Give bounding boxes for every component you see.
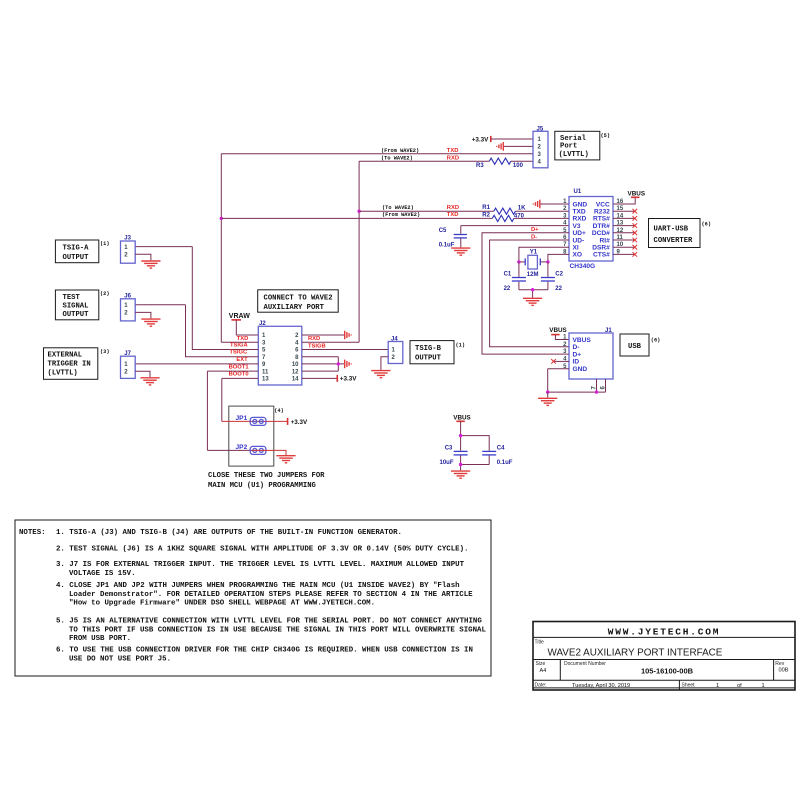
svg-text:1K: 1K (518, 206, 526, 212)
svg-text:AUXILIARY PORT: AUXILIARY PORT (264, 304, 325, 312)
svg-text:TSIGA: TSIGA (230, 342, 249, 348)
wire crystal right stub (540, 261, 548, 263)
svg-text:Document Number: Document Number (564, 661, 606, 667)
svg-text:TXD: TXD (237, 336, 249, 342)
capacitor C2 plates (541, 277, 555, 279)
svg-text:RXD: RXD (308, 336, 320, 342)
svg-text:R1: R1 (482, 205, 490, 211)
svg-text:D-: D- (573, 344, 580, 351)
svg-text:U1: U1 (574, 189, 582, 195)
svg-text:470: 470 (514, 214, 525, 220)
junction crystal ground node (531, 288, 534, 291)
wire J2 pin 2 to ground (302, 334, 344, 336)
svg-text:+3.3V: +3.3V (340, 376, 357, 383)
power VBUS at U1 pin 16 (631, 196, 639, 198)
svg-text:SIGNAL: SIGNAL (63, 303, 89, 311)
svg-text:CH340G: CH340G (570, 263, 596, 270)
svg-text:USB: USB (628, 343, 642, 351)
svg-text:EXTERNAL: EXTERNAL (48, 352, 83, 360)
svg-text:CLOSE THESE TWO JUMPERS FOR: CLOSE THESE TWO JUMPERS FOR (208, 472, 325, 480)
capacitor C1 plates (512, 277, 526, 279)
connector J7 (121, 356, 136, 378)
svg-text:(1): (1) (100, 241, 110, 247)
svg-text:(To WAVE2): (To WAVE2) (381, 155, 413, 161)
svg-text:C4: C4 (497, 445, 505, 451)
svg-text:+3.3V: +3.3V (472, 136, 489, 143)
svg-text:Rev: Rev (775, 661, 784, 667)
svg-text:3. J7 IS FOR EXTERNAL TRIGGER: 3. J7 IS FOR EXTERNAL TRIGGER INPUT. THE… (56, 561, 465, 569)
svg-text:"How to Upgrade Firmware" UNDE: "How to Upgrade Firmware" UNDER DSO SHEL… (69, 599, 375, 607)
ground at C5 (451, 248, 470, 255)
wire BOOT1 to JP2 (207, 449, 252, 451)
svg-text:TEST: TEST (63, 294, 81, 302)
svg-text:(LVTTL): (LVTTL) (48, 370, 78, 378)
svg-text:0.1uF: 0.1uF (497, 460, 513, 466)
connector J6 (121, 299, 136, 321)
svg-text:UD+: UD+ (573, 230, 587, 237)
svg-text:TRIGGER IN: TRIGGER IN (48, 361, 91, 369)
jumper JP2 body (250, 446, 266, 454)
connector J1 USB body (569, 333, 613, 379)
notes box (15, 520, 491, 676)
svg-text:TXD: TXD (447, 212, 459, 218)
svg-text:D+: D+ (531, 227, 539, 233)
wire VRAW to J2 pin 1 (236, 320, 258, 335)
svg-text:RXD: RXD (447, 155, 459, 161)
svg-text:(4): (4) (274, 408, 284, 414)
wire VBUS to C3 C4 top node (461, 421, 490, 450)
capacitor C1 branch wire (518, 262, 520, 290)
title block frame (533, 622, 795, 691)
svg-text:2. TEST SIGNAL (J6) IS A 1KHZ: 2. TEST SIGNAL (J6) IS A 1KHZ SQUARE SIG… (56, 546, 468, 554)
annotation box EXTERNAL TRIGGER IN (LVTTL) (44, 348, 98, 380)
svg-text:C5: C5 (439, 228, 447, 234)
wire J3 pin 2 to ground (135, 254, 151, 260)
wire J4 pin 2 to ground (381, 357, 388, 370)
svg-text:(From WAVE2): (From WAVE2) (381, 148, 419, 154)
ground at J5 pin 2 (rotated) (497, 142, 504, 151)
wire EXT from J7 pin 1 to J2 pin 9 (135, 363, 258, 365)
capacitor C4 plates (482, 450, 496, 452)
capacitor C2 branch wire (547, 262, 549, 290)
svg-text:(To WAVE2): (To WAVE2) (382, 205, 414, 211)
wire crystal left stub (519, 261, 525, 263)
wire U1 pin 16 VCC to VBUS (613, 198, 635, 204)
svg-text:(From WAVE2): (From WAVE2) (382, 212, 420, 218)
title block dividers (533, 637, 795, 690)
svg-text:VBUS: VBUS (628, 190, 646, 197)
wire UD+ to J1 D+ pin (482, 233, 569, 354)
wire TXD net from WAVE2 (top row to J5 pin 3 and down to J2) (221, 154, 533, 342)
wire +3.3V to J5 pin 1 (491, 138, 533, 140)
svg-text:R3: R3 (476, 163, 484, 169)
svg-text:RI#: RI# (600, 237, 611, 244)
wire BOOT0 to JP1 (222, 420, 288, 422)
annotation box USB (620, 334, 649, 356)
ground at J2 pin 2 (rotated) (345, 331, 352, 340)
power +3.3V at JP1 (287, 418, 289, 425)
annotation box Serial Port (LVTTL) (555, 131, 600, 160)
svg-text:OUTPUT: OUTPUT (63, 254, 90, 262)
svg-text:RTS#: RTS# (593, 216, 610, 223)
wire U1 pin 4 V3 to C5 (461, 226, 569, 234)
svg-text:NOTES:: NOTES: (19, 529, 46, 537)
svg-text:D-: D- (531, 234, 537, 240)
connector J4 (388, 342, 403, 364)
wire UD- to J1 D- pin (490, 240, 569, 347)
wire TSIGA from J3 to J2 pin 5 (135, 247, 258, 350)
svg-text:1. TSIG-A (J3) AND TSIG-B (J4): 1. TSIG-A (J3) AND TSIG-B (J4) ARE OUTPU… (56, 529, 402, 537)
svg-text:J6: J6 (124, 294, 131, 300)
svg-text:CTS#: CTS# (593, 252, 610, 259)
svg-text:A4: A4 (540, 668, 547, 674)
svg-text:4. CLOSE JP1 AND JP2 WITH JUMP: 4. CLOSE JP1 AND JP2 WITH JUMPERS WHEN P… (56, 582, 460, 590)
junction RXD column (357, 210, 360, 213)
svg-text:Y1: Y1 (530, 250, 538, 256)
svg-text:C3: C3 (445, 445, 453, 451)
annotation box UART-USB CONVERTER (649, 219, 701, 248)
svg-text:12M: 12M (527, 272, 539, 278)
svg-text:OUTPUT: OUTPUT (415, 355, 442, 363)
junction J1 ground rail pin7 (595, 390, 598, 393)
svg-text:J2: J2 (259, 321, 266, 327)
svg-text:6. TO USE THE USB CONNECTION D: 6. TO USE THE USB CONNECTION DRIVER FOR … (56, 647, 473, 655)
svg-text:VOLTAGE IS 15V.: VOLTAGE IS 15V. (69, 570, 136, 578)
wire J2 pins 8,10,12 common (302, 357, 344, 371)
svg-text:+3.3V: +3.3V (291, 419, 308, 426)
junction TXD column (220, 217, 223, 220)
wire RXD from J2 pin 4 up (302, 341, 359, 343)
ground at J6 (141, 319, 160, 326)
svg-text:J5: J5 (537, 126, 544, 132)
connector J3 (121, 241, 136, 263)
ground at U1 pin 1 (rotated) (533, 200, 540, 209)
svg-text:FROM USB PORT.: FROM USB PORT. (69, 635, 131, 643)
ground at J7 (140, 378, 159, 385)
wire BOOT0 from J2 pin 13 down to JP1 (222, 378, 258, 421)
svg-text:VBUS: VBUS (453, 415, 471, 422)
IC U1 CH340G body (569, 197, 613, 262)
svg-text:Sheet: Sheet (682, 683, 696, 689)
svg-text:TXD: TXD (573, 209, 586, 216)
svg-text:UD-: UD- (573, 237, 585, 244)
svg-text:11: 11 (262, 369, 269, 375)
wire ground stem at J1 (547, 392, 549, 398)
svg-text:Title: Title (535, 640, 544, 646)
svg-text:(6): (6) (651, 338, 661, 344)
wire TXD row to U1 pin 3 through R2 (221, 217, 569, 219)
ground below crystal caps (523, 298, 542, 305)
junction crystal left node (517, 260, 520, 263)
svg-text:(1): (1) (456, 343, 466, 349)
svg-text:(6): (6) (702, 221, 712, 227)
ground at J3 (141, 261, 160, 268)
svg-text:EXT: EXT (236, 357, 248, 363)
svg-text:Date:: Date: (535, 683, 547, 689)
ground at J2 pin 10 (rotated) (345, 360, 352, 369)
svg-text:Size: Size (536, 661, 546, 667)
wire JP2 to ground (252, 450, 286, 455)
svg-text:12: 12 (292, 369, 299, 375)
junction at J2 pin 10 row (337, 362, 340, 365)
svg-text:of: of (737, 683, 742, 689)
annotation box TSIG-A OUTPUT (55, 240, 98, 263)
wire C3 C4 bottom node to ground (461, 456, 490, 471)
svg-text:Tuesday, April 30, 2019: Tuesday, April 30, 2019 (572, 683, 630, 689)
wire J1 shield pins 6,7 to ground rail (548, 379, 606, 392)
svg-text:ID: ID (573, 359, 580, 366)
wire RXD net to WAVE2 (top row to R3/J5 pin 4 and down to J2) (359, 161, 533, 342)
svg-text:V3: V3 (573, 223, 581, 230)
svg-text:VCC: VCC (596, 201, 610, 208)
wire C5 to ground (460, 239, 462, 248)
wire RXD row to U1 pin 2 through R1 (359, 210, 569, 212)
svg-text:00B: 00B (779, 668, 789, 674)
wire TSIGB from J2 pin 6 to J4 pin 1 (302, 349, 388, 351)
svg-text:13: 13 (262, 377, 269, 383)
wire TXD into J2 pin 3 (221, 341, 258, 343)
svg-text:J7: J7 (124, 351, 131, 357)
resistor R3 body (489, 158, 511, 164)
wire crystal caps common to ground (519, 290, 548, 298)
wire J6 pin 2 to ground (135, 312, 151, 318)
svg-text:J3: J3 (124, 236, 131, 242)
svg-text:GND: GND (573, 201, 588, 208)
svg-text:GND: GND (573, 366, 588, 373)
svg-text:14: 14 (292, 377, 299, 383)
svg-text:J4: J4 (391, 337, 398, 343)
svg-text:RXD: RXD (447, 205, 459, 211)
wire U1 pin 8 XO to crystal (548, 254, 569, 262)
jumper JP1 body (250, 417, 266, 425)
svg-text:RXD: RXD (573, 216, 587, 223)
svg-text:OUTPUT: OUTPUT (63, 311, 90, 319)
svg-text:WWW.JYETECH.COM: WWW.JYETECH.COM (608, 626, 721, 637)
junction C3 C4 top (459, 434, 462, 437)
svg-text:XI: XI (573, 245, 579, 252)
svg-text:UART-USB: UART-USB (654, 225, 689, 233)
svg-text:5. J5 IS AN ALTERNATIVE CONNEC: 5. J5 IS AN ALTERNATIVE CONNECTION WITH … (56, 618, 482, 626)
ground at C3 C4 (451, 471, 470, 478)
svg-text:10uF: 10uF (440, 460, 454, 466)
svg-text:1: 1 (762, 683, 765, 689)
power +3.3V at J5 pin 1 (490, 136, 492, 142)
jumper enclosure box (229, 406, 274, 466)
svg-text:USE DO NOT USE PORT J5.: USE DO NOT USE PORT J5. (69, 655, 171, 663)
ground at JP2 (276, 456, 295, 463)
svg-text:10: 10 (292, 362, 299, 368)
svg-text:TSIG-B: TSIG-B (415, 345, 442, 353)
wire BOOT1 from J2 pin 11 down to JP2 (207, 371, 258, 450)
svg-text:(LVTTL): (LVTTL) (559, 151, 589, 159)
connector J2 (258, 326, 302, 385)
resistor R1 body (494, 208, 516, 214)
svg-text:(5): (5) (601, 133, 611, 139)
svg-text:J1: J1 (605, 328, 612, 334)
capacitor C5 plates (454, 234, 467, 236)
svg-text:VRAW: VRAW (229, 313, 250, 320)
crystal Y1 body (524, 258, 526, 265)
wire TSIGC from J6 to J2 pin 7 (135, 305, 258, 357)
svg-text:CONNECT TO WAVE2: CONNECT TO WAVE2 (264, 295, 333, 303)
U1 unused right pin stubs with no-connect marks (613, 210, 634, 212)
wire J5 pin 2 to ground (504, 145, 533, 147)
svg-text:TSIG-A: TSIG-A (63, 245, 90, 253)
svg-text:VBUS: VBUS (573, 337, 592, 344)
wire J1 pin 4 ID stub (553, 360, 569, 362)
svg-text:WAVE2 AUXILIARY PORT INTERFACE: WAVE2 AUXILIARY PORT INTERFACE (548, 647, 723, 658)
svg-text:(2): (2) (100, 291, 110, 297)
resistor R2 body (492, 215, 514, 221)
svg-text:CONVERTER: CONVERTER (654, 237, 694, 245)
wire J1 pin 5 GND to ground rail (548, 369, 569, 392)
svg-text:TXD: TXD (447, 148, 459, 154)
svg-text:TSIGB: TSIGB (308, 344, 326, 350)
svg-text:R232: R232 (594, 209, 610, 216)
svg-text:BOOT0: BOOT0 (229, 372, 249, 378)
svg-text:100: 100 (513, 163, 524, 169)
power +3.3V at J2 pin 14 (336, 375, 338, 382)
ground at J1 (538, 398, 557, 405)
svg-text:TO THIS PORT IF USB CONNECTION: TO THIS PORT IF USB CONNECTION IS IN USE… (69, 626, 486, 634)
svg-text:105-16100-00B: 105-16100-00B (641, 666, 694, 675)
svg-text:TSIGC: TSIGC (229, 350, 248, 356)
annotation box CONNECT TO WAVE2 AUXILIARY PORT (258, 290, 339, 312)
svg-text:D+: D+ (573, 351, 582, 358)
wire J2 pin 14 to +3.3V (302, 377, 338, 379)
svg-text:C1: C1 (504, 272, 512, 278)
junction J1 ground rail left (546, 390, 549, 393)
svg-text:XO: XO (573, 252, 583, 259)
svg-text:22: 22 (504, 286, 511, 292)
annotation box TSIG-B OUTPUT (410, 341, 454, 364)
svg-text:DCD#: DCD# (592, 230, 610, 237)
svg-text:MAIN MCU (U1) PROGRAMMING: MAIN MCU (U1) PROGRAMMING (208, 482, 316, 490)
wire J7 pin 2 to ground (135, 371, 150, 377)
svg-text:1: 1 (716, 683, 719, 689)
svg-text:22: 22 (555, 286, 562, 292)
svg-text:VBUS: VBUS (549, 327, 567, 334)
junction C3 C4 bottom (459, 463, 462, 466)
connector J5 (533, 131, 548, 168)
svg-text:DSR#: DSR# (592, 245, 610, 252)
wire U1 pin 1 GND stub (541, 203, 570, 205)
no-connect mark at J1 pin 4 (551, 359, 556, 364)
svg-text:(3): (3) (100, 349, 110, 355)
svg-text:C2: C2 (555, 272, 563, 278)
svg-text:DTR#: DTR# (593, 223, 611, 230)
wire VBUS to J1 pin 1 (555, 335, 569, 340)
ground at J4 (371, 371, 390, 378)
wire U1 pin 7 XI to crystal (519, 247, 569, 262)
svg-text:BOOT1: BOOT1 (229, 364, 250, 370)
capacitor C3 plates (454, 450, 468, 452)
svg-text:Loader Demonstrator". FOR DETA: Loader Demonstrator". FOR DETAILED OPERA… (69, 591, 473, 599)
svg-text:R2: R2 (482, 212, 490, 218)
annotation box TEST SIGNAL OUTPUT (55, 290, 98, 320)
junction crystal right node (546, 260, 549, 263)
svg-text:Port: Port (560, 143, 577, 151)
